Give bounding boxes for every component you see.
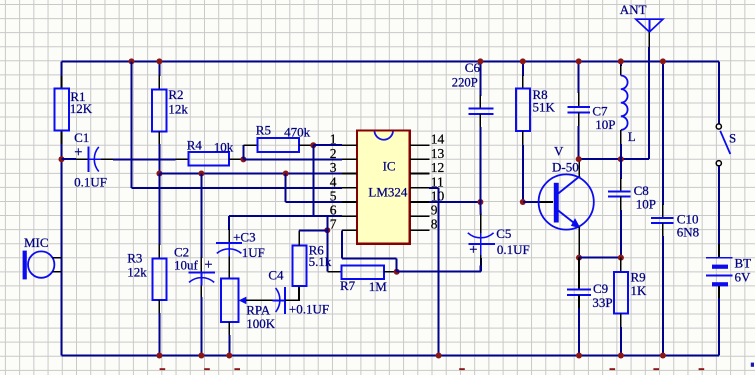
svg-text:LM324: LM324 — [368, 185, 408, 200]
svg-text:9: 9 — [431, 203, 438, 218]
wire collector up — [578, 159, 580, 176]
svg-text:R4: R4 — [187, 138, 203, 153]
junction dot top rail R2 — [156, 58, 162, 64]
wire antenna feed — [648, 47, 650, 159]
svg-text:MIC: MIC — [24, 235, 49, 250]
svg-text:33P: 33P — [592, 295, 612, 310]
svg-text:+: + — [204, 257, 212, 273]
svg-text:+C3: +C3 — [233, 229, 256, 244]
IC left pin stubs — [342, 144, 357, 146]
wire pin6 line with C3 drop — [229, 215, 342, 217]
capacitor C10 — [662, 61, 664, 205]
svg-text:10uf: 10uf — [174, 258, 199, 273]
svg-text:C9: C9 — [593, 281, 608, 296]
junction dot C6 top rail — [477, 58, 483, 64]
wire to IC pin2 — [243, 158, 341, 160]
svg-text:+0.1UF: +0.1UF — [289, 302, 329, 317]
junction dot R5 out / pin1 — [310, 142, 316, 148]
junction dot C8/R9 node — [618, 255, 624, 261]
svg-text:+: + — [74, 145, 82, 161]
svg-text:BT: BT — [735, 256, 752, 271]
wire base node to transistor — [523, 201, 538, 203]
wire left branch R1/MIC vertical — [61, 61, 63, 77]
junction dot L bottom — [618, 156, 624, 162]
resistor R7 — [341, 265, 384, 279]
svg-text:5: 5 — [330, 188, 337, 203]
wire emitter down — [578, 227, 580, 258]
svg-text:L: L — [628, 129, 636, 144]
wire collector node line — [579, 158, 649, 160]
transistor V D-50 — [554, 144, 564, 159]
svg-text:V: V — [554, 144, 564, 159]
svg-text:6V: 6V — [735, 270, 752, 285]
svg-text:10k: 10k — [214, 139, 234, 154]
junction dot C9 ground — [576, 353, 582, 359]
wire IC pin10 to C6/R8 node — [429, 201, 480, 203]
svg-text:13: 13 — [431, 146, 445, 161]
junction dot C7 top rail — [576, 58, 582, 64]
svg-text:6N8: 6N8 — [677, 225, 699, 240]
IC notch arc — [375, 131, 394, 139]
capacitor C3 — [228, 229, 230, 243]
svg-text:IC: IC — [383, 158, 396, 173]
svg-text:1M: 1M — [369, 279, 388, 294]
wire IC pin4 supply line — [132, 187, 342, 189]
svg-text:C7: C7 — [592, 103, 608, 118]
svg-text:R2: R2 — [168, 87, 183, 102]
resistor R4 — [175, 158, 188, 160]
junction dot R4/R5/pin2 — [240, 156, 246, 162]
IC left pin numbers 1-7 — [330, 132, 337, 147]
wire R2 from top rail — [129, 58, 135, 64]
resistor R1 — [55, 89, 69, 131]
junction dot R7 right / output node — [394, 269, 400, 275]
antenna ANT — [620, 2, 647, 17]
battery BT — [718, 244, 720, 258]
svg-text:1: 1 — [330, 132, 337, 147]
svg-text:R5: R5 — [256, 123, 271, 138]
IC labels — [383, 158, 396, 173]
wire emitter node to C8/R9 — [579, 257, 621, 259]
junction dot pin11 ground — [436, 353, 442, 359]
wire pin1 node down to pin6 line — [312, 145, 314, 216]
junction dot R2/R3 bias node — [156, 171, 162, 177]
capacitor C6 — [479, 61, 481, 96]
IC right pin stubs — [410, 144, 430, 146]
junction dot C2 ground — [198, 353, 204, 359]
svg-text:10P: 10P — [636, 196, 656, 211]
svg-text:0.1UF: 0.1UF — [497, 242, 530, 257]
IC right pin numbers 14-8 — [431, 132, 445, 147]
junction dot C10 ground — [660, 353, 666, 359]
junction dot C10 top rail — [660, 58, 666, 64]
capacitor C1 — [62, 158, 77, 160]
corner blue mark — [751, 363, 754, 367]
junction dot RPA ground — [226, 353, 232, 359]
resistor R3 — [158, 174, 160, 246]
junction dot C2 tap — [198, 171, 204, 177]
node A junction dot at R1/C1/MIC — [59, 156, 65, 162]
svg-text:1K: 1K — [631, 283, 648, 298]
svg-text:R3: R3 — [127, 250, 142, 265]
junction dot R3 ground — [156, 353, 162, 359]
IC U1 LM324 body — [357, 130, 410, 243]
svg-text:R7: R7 — [340, 278, 356, 293]
resistor R9 — [620, 258, 622, 272]
svg-text:100K: 100K — [246, 316, 275, 331]
wire pin3 bias line — [159, 173, 341, 175]
svg-text:D-50: D-50 — [552, 160, 579, 175]
junction dot L top rail — [618, 58, 624, 64]
junction dot R9 ground — [618, 353, 624, 359]
svg-text:51K: 51K — [533, 99, 556, 114]
svg-text:14: 14 — [431, 132, 445, 147]
svg-text:ANT: ANT — [620, 2, 647, 17]
resistor R8 — [522, 61, 524, 76]
wire pin3 node down to pin5 — [285, 174, 287, 203]
svg-text:C1: C1 — [74, 130, 89, 145]
microphone MIC — [24, 235, 49, 250]
wire V+ vertical to IC pin4 — [131, 61, 133, 187]
svg-text:8: 8 — [431, 217, 438, 232]
resistor R6 — [292, 245, 306, 286]
junction dot R6/R7/pin6 feedback node — [324, 227, 330, 233]
capacitor C9 — [578, 258, 580, 289]
bottom red tick marks — [160, 368, 166, 370]
wire C1 to R4 (pin2 net) — [113, 158, 175, 160]
svg-text:+: + — [469, 242, 477, 258]
svg-text:2: 2 — [330, 146, 337, 161]
svg-text:4: 4 — [330, 174, 337, 189]
capacitor C5 — [479, 202, 481, 215]
wire bottom ground rail — [62, 355, 720, 357]
svg-text:S: S — [729, 130, 736, 145]
svg-text:0.1UF: 0.1UF — [74, 175, 107, 190]
inductor L — [620, 61, 622, 66]
wire IC pin11 to ground — [429, 187, 439, 189]
wire to IC pin1 — [313, 144, 342, 146]
wire top +V rail — [62, 60, 720, 62]
junction dot R8 top rail — [520, 58, 526, 64]
svg-text:220P: 220P — [452, 75, 478, 89]
resistor R5 — [242, 145, 244, 159]
capacitor C8 — [620, 159, 622, 179]
switch S — [718, 61, 720, 123]
svg-text:10P: 10P — [595, 117, 615, 132]
svg-text:12: 12 — [431, 160, 445, 175]
wire output node to C5 bottom — [397, 271, 481, 273]
junction dot R8 bottom / base node — [520, 199, 526, 205]
capacitor C2 — [200, 174, 202, 259]
svg-text:R9: R9 — [631, 269, 646, 284]
svg-text:1UF: 1UF — [242, 245, 265, 260]
svg-text:5.1k: 5.1k — [309, 254, 332, 269]
junction dot pin5 tap — [283, 171, 289, 177]
capacitor C7 — [578, 61, 580, 93]
resistor R2 — [152, 90, 167, 132]
wire IC pin7 to R7 right — [342, 229, 357, 231]
junction dot top rail / V+ drop — [158, 61, 160, 76]
wire feedback node down to R7 left — [326, 230, 328, 271]
capacitor C4 — [276, 288, 280, 312]
svg-text:7: 7 — [330, 217, 337, 232]
svg-text:470k: 470k — [284, 125, 311, 140]
svg-text:12K: 12K — [70, 101, 93, 116]
junction dot emitter node — [576, 255, 582, 261]
svg-text:6: 6 — [330, 203, 337, 218]
junction dot C7/collector — [576, 156, 582, 162]
svg-text:12k: 12k — [168, 101, 188, 116]
svg-text:C5: C5 — [496, 226, 511, 241]
potentiometer RPA — [221, 279, 238, 322]
svg-text:C4: C4 — [268, 268, 284, 283]
junction dot C6 bottom node — [477, 199, 483, 205]
svg-text:3: 3 — [330, 160, 337, 175]
svg-text:12k: 12k — [127, 265, 147, 280]
